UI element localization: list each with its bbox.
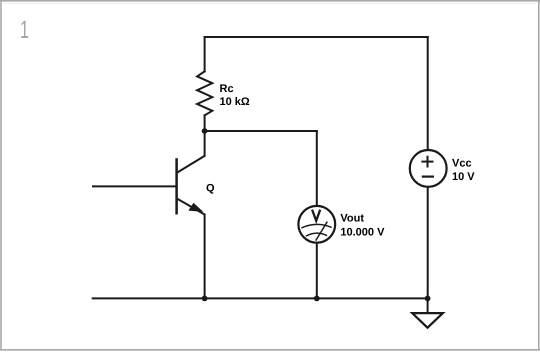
- svg-text:10 V: 10 V: [452, 171, 475, 183]
- svg-text:Q: Q: [206, 183, 215, 195]
- node collector junction: [202, 128, 208, 134]
- svg-text:Vout: Vout: [340, 213, 364, 225]
- svg-text:10.000 V: 10.000 V: [340, 227, 385, 239]
- wire collector vertical: [204, 131, 206, 156]
- wire resistor top lead: [204, 37, 206, 71]
- node voltmeter junction: [314, 296, 320, 302]
- svg-text:Rc: Rc: [220, 83, 234, 95]
- svg-text:Vcc: Vcc: [452, 157, 472, 169]
- node ground junction: [425, 296, 431, 302]
- wire right vertical to source: [427, 37, 429, 150]
- svg-text:1: 1: [20, 16, 29, 44]
- wire voltmeter bottom vertical: [316, 243, 318, 299]
- wire emitter vertical: [204, 215, 206, 299]
- voltage source Vcc: [410, 150, 447, 187]
- node emitter junction: [202, 296, 208, 302]
- wire node to voltmeter horizontal: [205, 130, 317, 132]
- wire bottom horizontal: [93, 297, 428, 299]
- wire source bottom vertical: [427, 187, 429, 299]
- wire voltmeter top vertical: [316, 131, 318, 206]
- resistor Rc: [197, 71, 212, 115]
- ground: [412, 313, 443, 328]
- voltmeter Vout: [298, 206, 335, 243]
- wire ground stub: [427, 298, 429, 313]
- wire base horizontal: [93, 185, 177, 187]
- transistor Q: [177, 156, 205, 215]
- svg-text:10 kΩ: 10 kΩ: [220, 96, 250, 108]
- wire top horizontal: [205, 36, 428, 38]
- wire resistor bottom lead: [204, 115, 206, 131]
